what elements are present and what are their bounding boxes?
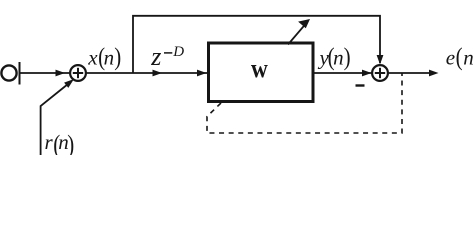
minus sign at A2 <box>356 84 365 86</box>
source tick <box>19 62 21 85</box>
svg-text:e: e <box>446 46 455 70</box>
arrowhead down into adder A2 <box>377 55 384 65</box>
summing junction A1 <box>70 65 86 81</box>
svg-text:): ) <box>114 43 121 71</box>
filter block W <box>209 43 314 102</box>
adaptation arrow (diagonal through box corner) <box>288 26 304 45</box>
arrowhead into adder A1 from r(n) <box>64 79 74 88</box>
wire box W to adder A2 <box>314 72 371 74</box>
svg-text:): ) <box>344 43 351 71</box>
svg-text:n: n <box>463 46 474 70</box>
svg-text:D: D <box>172 44 184 60</box>
arrowhead into box <box>197 70 207 77</box>
wire A1 to box W <box>86 72 207 74</box>
svg-text:(: ( <box>456 43 463 71</box>
feedback wire x(n) to adder A2 (top path) <box>133 16 380 73</box>
arrowhead into adder A1 <box>56 70 66 77</box>
summing junction A2 <box>372 65 388 81</box>
svg-text:): ) <box>67 131 74 155</box>
svg-text:w: w <box>251 55 268 84</box>
output arrowhead <box>429 70 439 77</box>
dashed error feedback path from box W to e(n) <box>207 73 402 133</box>
arrowhead into adder A2 <box>362 70 372 77</box>
output wire e(n) <box>388 72 434 74</box>
svg-text:n: n <box>104 46 115 70</box>
svg-text:r: r <box>45 130 54 154</box>
noise input wire r(n) <box>41 84 68 155</box>
source circle (input transducer) <box>1 65 16 80</box>
svg-text:x: x <box>87 46 98 70</box>
svg-text:z: z <box>150 42 161 71</box>
svg-text:n: n <box>333 46 344 70</box>
arrowhead mid wire <box>153 70 163 77</box>
wire source to adder A1 <box>20 72 71 74</box>
